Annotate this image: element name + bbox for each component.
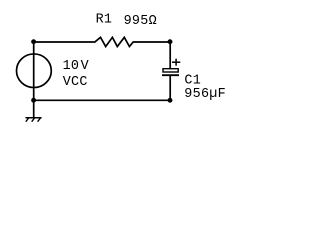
svg-text:995Ω: 995Ω bbox=[124, 14, 157, 29]
svg-text:VCC: VCC bbox=[63, 75, 88, 90]
svg-text:R1: R1 bbox=[96, 13, 113, 28]
svg-text:10V: 10V bbox=[63, 59, 89, 74]
svg-text:956µF: 956µF bbox=[184, 87, 226, 102]
